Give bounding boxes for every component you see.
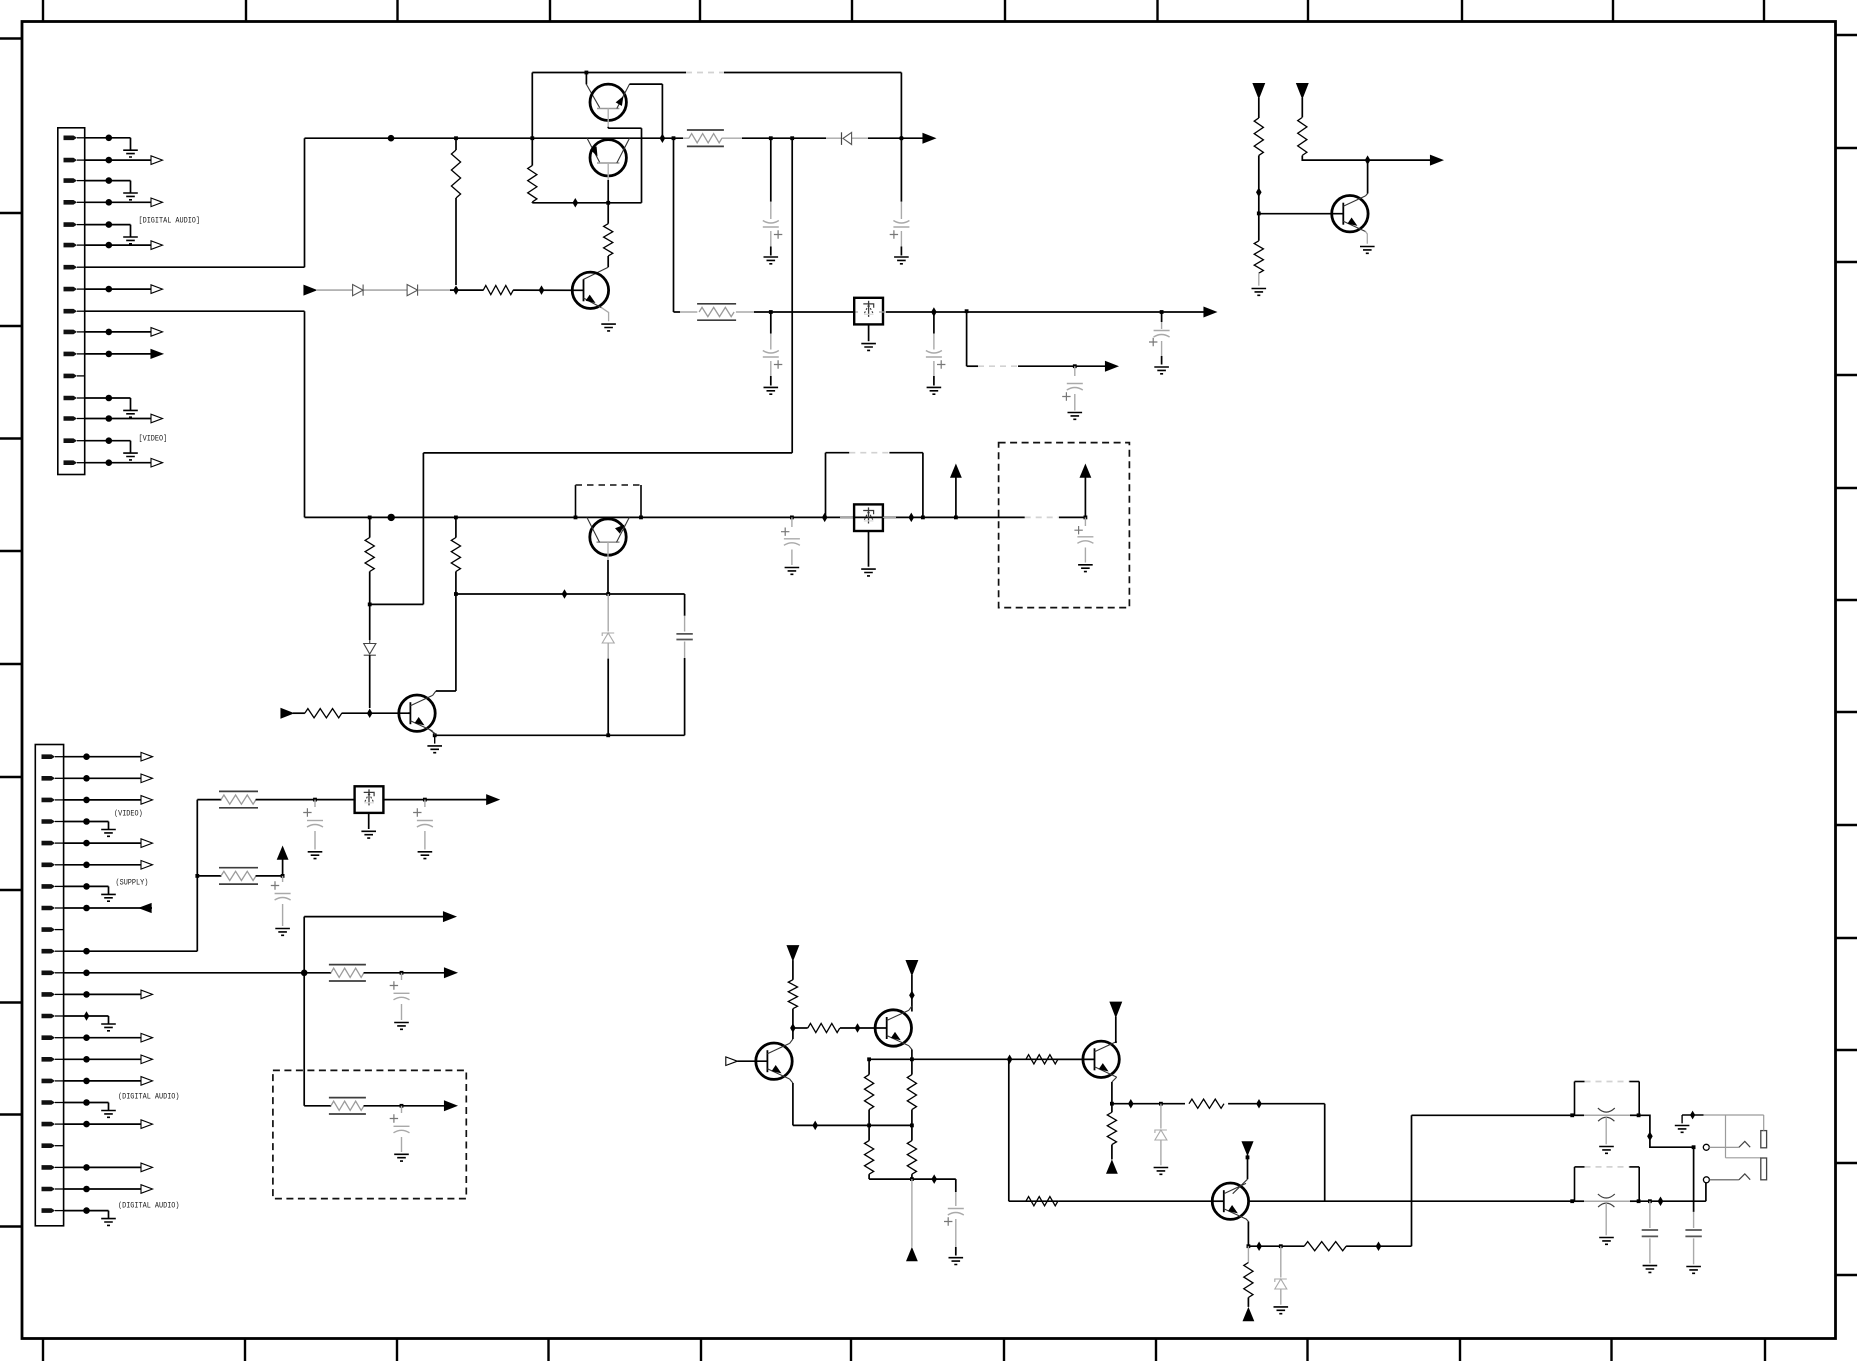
wire J2-5 [64,842,87,844]
row4 wire right [364,1105,445,1107]
junction dot J2-8 [83,905,90,912]
capacitor C10 (electrolytic) [314,800,316,807]
ground at C10 [308,852,323,859]
wire Q10 collector riser [1247,1155,1249,1179]
transistor Q8 [875,1010,911,1046]
junction x1649.9 y1201 [1648,1199,1652,1203]
resistor R20 (vertical x869.1 upper) [868,1059,870,1074]
wire J2-18 [64,1123,87,1125]
capacitor C12 (electrolytic) [282,876,284,882]
junction dot J1-1 [106,135,113,142]
ground at C1b [764,257,779,264]
junction rail D / Q5 right [639,516,643,520]
diamond junction y1125 x815 [812,1121,818,1131]
diamond junction y594 x564.5 [562,589,568,599]
wire Q2 base down to rail B [607,163,609,180]
capacitor C9 (non-polar x684.6) [684,594,686,616]
junction rail D / R11 [368,516,372,520]
junction dot J2-16 [83,1078,90,1085]
ground at J1-3 [109,180,131,182]
diamond junction y1246 x1259 [1256,1241,1262,1251]
wire J1-14 [85,418,109,420]
rail D dashed gray segment [1025,516,1059,518]
svg-text:(VIDEO): (VIDEO) [114,809,143,819]
junction sub-rail / C5 [1073,364,1077,368]
supply arrow up x955.9 [955,477,957,517]
wire J2-7 [64,885,87,887]
transistor Q10 [1212,1183,1248,1219]
diamond junction rail C / R1 [453,285,459,295]
junction dot J2-3 [83,797,90,804]
resistor R7 (vertical x1302) [1298,117,1307,155]
top rail y72 wire [532,72,686,74]
row2 wire y875.9 [197,875,221,877]
zener ZD1 chain below Q5 [607,594,609,632]
ground at C16 [1643,1266,1658,1273]
rail C black wire [450,289,484,291]
wire Q9 emitter down [1112,1077,1117,1082]
pin J2-11 [42,971,56,976]
junction y594 / R12 [454,592,458,596]
rail 2 wire middle [754,311,855,313]
wire y604 horizontal [370,603,424,605]
rail A gray segment at diode D3 [826,137,842,139]
resistor R8 (horizontal with bars) [697,303,736,305]
capacitor C8 (electrolytic in dashed box) [1084,517,1086,526]
resistor R15 (horizontal with bars) [219,867,258,869]
junction dot J2-22 [83,1207,90,1214]
pin J2-7 [42,884,56,889]
diamond junction x1649.9 [1647,1132,1653,1142]
row1 wire right [383,799,487,801]
resistor R12 (vertical x455.9) [455,517,457,537]
ground at J2-17 [87,1102,109,1104]
supply arrow up x1111.9 [1106,1159,1118,1173]
bottom row y1246 wire [1248,1245,1304,1247]
jack J3 contact arcs [1598,1108,1615,1112]
wire J2-14 [64,1037,87,1039]
wire J2-10 long to riser x197 [64,950,198,952]
rail C gray wire segments [316,289,353,291]
wire Q6 collector riser [433,691,436,695]
pin J1-5 [64,222,78,227]
wire J1-2 [85,159,109,161]
supply arrow down x1247.5 [1242,1142,1253,1155]
resistor R6 (vertical x1259 lower) [1254,241,1263,273]
connector J2 body [35,745,63,1226]
resistor R29 (horizontal y1201) [1026,1197,1058,1206]
wire riser x304 row3 to y916 [303,917,305,973]
transistor Q4 [1332,196,1368,232]
junction y1179 / R23 [910,1177,914,1181]
diamond junction rail C x541 [539,285,545,295]
wire J1-15 [85,440,109,442]
transistor Q2 [587,138,600,162]
wire supply col x1302 [1301,98,1303,117]
frame zone ticks left [0,37,22,39]
row y1103 wire right [1228,1103,1325,1105]
wire J2-1 [64,756,87,758]
junction row3 / C13 [400,971,404,975]
diamond junction rail D x824.7 [822,513,828,523]
wire J2-3 [64,799,87,801]
wire riser x304 row3 to row4 [303,973,305,1106]
wire Q9 collector riser [1115,1042,1118,1044]
signal arrow J1-8 [109,288,151,290]
supply arrow down (col x1259) [1253,84,1264,99]
junction dot J1-16 [106,459,113,466]
diamond junction y1103 x1259 [1256,1099,1262,1109]
signal arrow J1-6 [109,244,151,246]
junction y1125 / R21 [910,1124,914,1128]
signal arrow J2-3 [87,799,142,801]
resistor R27 (vertical x1248.3) [1247,1246,1249,1262]
ground under B1 [868,324,870,341]
resistor R9 (horizontal with bars on rail A) [683,137,689,139]
top rail dashed segment [686,72,724,74]
wire riser x1411.5 to jack1 row [1411,1115,1413,1246]
wire J1-8 [85,288,109,290]
junction rail A / R2 column [530,136,534,140]
rail A horizontal wire [305,137,684,139]
diamond junction rail 2 x934 [931,307,937,317]
ground at Q3 emitter [601,324,616,331]
wire Q7 emitter down to row y1125 [790,1079,793,1083]
diode D1 on rail C [353,285,364,296]
resistor R24 (horizontal) [1026,1055,1058,1064]
rail A wire after R9 [742,137,826,139]
resistor R4 (horizontal) [483,286,513,295]
junction rail A / R1 column [454,136,458,140]
junction x1693.6 y1147 [1692,1145,1696,1149]
wire J2-17 [64,1102,87,1104]
diamond junction x792.9 y1028 [790,1023,796,1033]
resistor R14 (horizontal with bars) [219,790,258,792]
wire J1-10 [85,331,109,333]
wire J2-20 [64,1166,87,1168]
jack J3 (top) body [1574,1082,1576,1116]
base row wire to Q6 [342,712,411,714]
rail B wire y203 [532,202,641,204]
input arrow rail C [304,285,316,294]
wire Q1 collector down [607,109,609,127]
row y1179 wire [869,1178,956,1180]
diode D2 on rail C [407,285,418,296]
resistor R13 (horizontal) [293,712,305,714]
resistor R1 (vertical, x456) [455,138,457,150]
junction rail A / C1b [769,136,773,140]
rail C wire to Q3 base [513,289,583,291]
wire riser x423 y453 to y604 [422,453,424,605]
svg-text:(DIGITAL AUDIO): (DIGITAL AUDIO) [118,1092,180,1102]
input arrow base row Q6 [281,709,293,718]
signal arrow J1-10 [109,331,151,333]
capacitor C11 (electrolytic) [424,800,426,807]
junction rail B / Q2 base [606,201,610,205]
wire J2-12 [64,993,87,995]
ground at C8 [1078,565,1093,572]
capacitor C1 (electrolytic at x901 under rail A) [900,138,902,202]
rail 2 wire right of B1 [886,311,1204,313]
pin J2-10 [42,949,56,954]
junction dot on rail A x391 [388,135,395,142]
junction dot J1-11 [106,351,113,358]
junction dot J2-11 [83,970,90,977]
junction dot J1-6 [106,242,113,249]
pin J1-3 [64,178,78,183]
wire x1259 to junctions [1258,156,1260,241]
junction dot J1-13 [106,395,113,402]
junction rail D x922.9 [921,516,925,520]
long row y1059 wire [869,1058,1094,1060]
capacitor C14 (electrolytic) [401,1106,403,1113]
diamond junction J2-13 [64,1015,87,1017]
capacitor C15 (electrolytic x955.8) [955,1179,957,1192]
junction y1246 / zener ZD3 [1279,1244,1283,1248]
resistor R22 (vertical x869.1 lower) [868,1125,870,1140]
supply arrow up (below y1179) [911,1179,913,1247]
wire J2-22 [64,1210,87,1212]
ground at C14 [394,1154,409,1161]
wire J2-16 [64,1080,87,1082]
jack J4 switch contact [1709,1179,1739,1181]
signal arrow J1-11 (filled) [109,353,151,355]
signal arrow J2-5 [87,842,142,844]
ground at C4 [1154,367,1169,374]
input arrow J2-8 (filled left) [87,907,153,909]
pin J1-13 [64,396,78,401]
diamond junction y1201 x1660.5 [1658,1196,1664,1206]
signal arrow J1-2 [109,159,151,161]
pin J1-2 [64,158,78,163]
svg-text:[DIGITAL AUDIO]: [DIGITAL AUDIO] [139,216,201,226]
wire riser x1008.8 (y1059 to y1201) [1008,1059,1010,1201]
wire Q4 emitter to ground [1366,232,1368,244]
signal arrow J1-4 [109,201,151,203]
junction rail 2 / sub-rail riser [965,309,969,313]
resistor R18 (vertical x792.9) [788,980,797,1009]
pin J1-11 [64,352,78,357]
row3 wire right [364,972,445,974]
pin J2-19 [42,1143,56,1148]
signal arrow J2-6 [87,864,142,866]
ground at J2-22 [87,1210,109,1212]
wire Q4 collector riser [1366,194,1368,196]
junction dot J2-4 [83,818,90,825]
wire Q7 collector riser [790,1039,793,1043]
wire J2-2 [64,777,87,779]
ground at J1-15 [109,440,131,442]
signal arrow J2-18 [87,1123,142,1125]
junction dot J2-7 [83,883,90,890]
junction rail D / Q5 left [574,516,578,520]
junction rail A / riser x792 [790,136,794,140]
ground under B3 [368,813,370,829]
ground at J2-7 [87,885,109,887]
ground at J1-1 [109,137,131,139]
junction dot J2-1 [83,753,90,760]
pin J1-1 [64,136,78,141]
resistor R16 (horizontal with bars) [329,964,366,966]
row y735 wire [435,734,685,736]
signal arrow J2-15 [87,1058,142,1060]
capacitor C7 (electrolytic at x791.9) [791,517,793,527]
frame zone ticks top [42,0,44,22]
wire y453 horizontal [423,452,792,454]
output arrow y160 [1431,155,1443,164]
transistor Q3 [584,267,609,279]
junction rail A / C-column x673 [672,136,676,140]
row y1125 wire [793,1124,912,1126]
jack J4 (bottom) body [1574,1167,1576,1201]
junction dot J1-10 [106,329,113,336]
wire J1-7 to rail A riser [85,266,305,268]
capacitor C2 (electrolytic at x770.8) [770,312,772,334]
output arrow row4 [445,1101,457,1110]
pin J2-4 [42,819,56,824]
ground at C1 [894,257,909,264]
junction long row / Q8 emitter [910,1057,914,1061]
junction x1259 / Q4 base row [1257,212,1261,216]
pin J2-21 [42,1187,56,1192]
capacitor C4 (electrolytic at x1161.6) [1161,312,1163,322]
junction dot J2-20 [83,1164,90,1171]
pin J1-15 [64,438,78,443]
wire Q10 emitter down [1246,1219,1249,1222]
row1 wire y799.6 [197,799,221,801]
pin J2-6 [42,863,56,868]
output arrow row3 [445,968,457,977]
wire Q1 emitter to rail A [630,83,663,85]
wire supply to R18 [792,960,794,980]
zener ZD2 with ground [1160,1104,1162,1129]
wire supply to Q8 collector [911,975,913,1012]
bypass loop over box B2 [825,453,827,518]
junction y1125 / R20 [867,1124,871,1128]
diamond junction rail A / Q1 emitter [660,133,666,143]
pin J2-13 [42,1014,56,1019]
sub-rail wire y366 [967,365,978,367]
junction dot J1-2 [106,157,113,164]
jack J3 sleeve terminal [1761,1131,1767,1148]
junction dot rail D x391 [388,514,395,521]
resistor R28 (horizontal y1246) [1304,1242,1346,1251]
wire J2-15 [64,1058,87,1060]
pin J2-15 [42,1057,56,1062]
ground at C15 [949,1258,964,1265]
resistor R19 (horizontal) [793,1027,808,1029]
rail A right segment to output arrow [868,137,923,139]
diamond junction y1028 x857.5 [855,1023,861,1033]
pin J2-2 [42,776,56,781]
junction jack J4 left [1570,1199,1574,1203]
resistor R5 (vertical x1259 upper) [1254,118,1263,156]
signal arrow J1-14 [109,418,151,420]
junction dot J1-14 [106,415,113,422]
junction rail 2 / C4 [1160,310,1164,314]
ground at C7 [785,568,800,575]
junction y735 / Q6 emitter [433,733,437,737]
junction dot J1-8 [106,286,113,293]
pin J1-8 [64,287,78,292]
wire supply col x1259 [1258,98,1260,118]
junction dot J2-6 [83,862,90,869]
capacitor C17 (non-polar x1693.6) [1693,1147,1695,1212]
junction rail D / supply arrow x955.9 [954,516,958,520]
signal arrow J2-14 [87,1037,142,1039]
wire x1302 corner to output row [1302,156,1367,161]
row y1201 wire (to Q10 base) [1058,1200,1212,1202]
wire J1-16 [85,462,109,464]
ground at J2-13 [87,1015,109,1017]
resistor R17 (horizontal with bars) [329,1097,366,1099]
junction dot row3 x304 [301,970,308,977]
junction rail D end / C8 [1084,516,1088,520]
rail 2 wire left segment [674,311,681,313]
junction top rail / Q1 base feed [585,71,589,75]
wire y1115 to jack 1 [1412,1114,1575,1116]
transistor Q9 [1083,1041,1119,1077]
output arrow rail 2 [1204,307,1216,316]
capacitor C13 (electrolytic) [401,973,403,980]
dashed box over Q5 [575,485,577,517]
row y594 wire [456,593,685,595]
junction dot J2-14 [83,1034,90,1041]
signal arrow J2-16 [87,1080,142,1082]
signal arrow J2-20 [87,1166,142,1168]
jack J4 ground stem [1605,1203,1607,1235]
junction Q10 collector feed [1246,1156,1250,1160]
diamond junction rail B [573,198,579,208]
ground at Q6 emitter [434,735,436,743]
junction dot J2-10 [83,948,90,955]
supply arrow down x1116 [1110,1002,1121,1017]
pin J2-18 [42,1122,56,1127]
junction row2 terminal [281,874,285,878]
wire Q3 emitter to ground [601,308,608,322]
junction dot J2-12 [83,991,90,998]
capacitor C3 (electrolytic at x933.9) [933,312,935,334]
diamond junction y1059 x1009.6 [1007,1055,1013,1065]
zener ZD3 with ground [1280,1246,1282,1277]
output arrow row1 [487,795,499,804]
wire R19 to Q8 base [840,1027,880,1029]
row3b wire y916 [304,916,444,918]
pin J2-1 [42,754,56,759]
ground at J1-5 [109,224,131,226]
wire J1-9 to rail D riser [85,310,305,312]
pin J2-12 [42,992,56,997]
pin J1-9 [64,309,78,314]
dashed box around row4 [273,1070,466,1198]
supply arrow up x1085.4 [1084,477,1086,517]
output row y160 wire [1368,159,1431,161]
wire R18 to diamond [792,1009,794,1028]
junction x197 / row2 [195,874,199,878]
row1 wire mid [256,799,355,801]
capacitor C16 (non-polar x1649.9) [1649,1201,1651,1228]
ground at C13 [394,1023,409,1030]
junction row4 / C14 [400,1104,404,1108]
pin J1-7 [64,265,78,270]
pin J2-17 [42,1100,56,1105]
pin J2-5 [42,841,56,846]
junction y1246 / Q10 emitter [1247,1244,1251,1248]
junction dot J2-2 [83,775,90,782]
box component B2 on rail D [840,516,854,518]
frame zone ticks bottom [42,1339,44,1361]
signal arrow J2-1 [87,756,142,758]
